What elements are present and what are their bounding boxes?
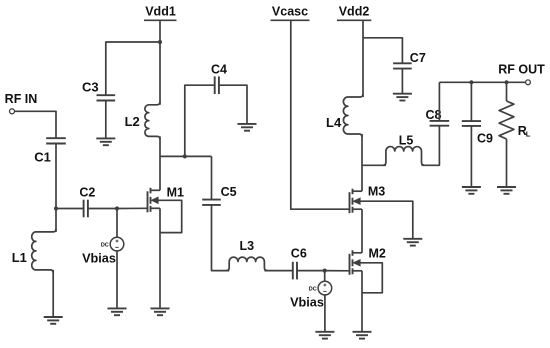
node M1 gate bias (117,208.5)	[115, 206, 119, 210]
wire bias node to Vbias1	[116, 209, 118, 238]
source Vbias2 DC symbol	[318, 281, 332, 295]
wire node row y=156.4	[160, 155, 212, 157]
wire RL top lead	[506, 82, 508, 101]
svg-text:L1: L1	[12, 250, 27, 265]
wire Vcasc to M3 gate	[291, 20, 350, 209]
wire C8 up to output rail	[438, 82, 440, 121]
wire M3 source to M2 drain	[361, 209, 363, 253]
label C9	[477, 132, 493, 146]
power rail Vdd2 label	[337, 5, 371, 21]
label M2	[369, 247, 386, 261]
svg-text:C3: C3	[82, 79, 99, 94]
capacitor C8	[430, 121, 450, 126]
wire C4 branch up	[185, 85, 215, 156]
wire input node to C2	[56, 208, 84, 210]
label dc small 1	[101, 243, 109, 249]
wire gate lead M2	[325, 270, 350, 272]
svg-text:L4: L4	[326, 115, 342, 130]
power rail Vcasc label	[271, 5, 310, 21]
capacitor C9	[462, 121, 481, 126]
capacitor C5	[202, 200, 221, 205]
node RL branch (506.5,82.3)	[504, 80, 508, 84]
svg-text:Vbias: Vbias	[290, 296, 324, 310]
ground under M1 source	[151, 308, 170, 315]
transistor M1	[148, 188, 161, 213]
wire L3 to C6	[264, 270, 292, 272]
wire M2 body-source loop	[357, 263, 382, 293]
label C6	[291, 247, 307, 261]
wire node to C3 branch	[106, 42, 160, 95]
node M2 gate bias (324.7,270.6)	[323, 269, 327, 273]
label L5	[399, 133, 414, 147]
transistor M3	[350, 189, 363, 214]
ground under Vbias1	[108, 308, 127, 315]
svg-text:M3: M3	[368, 185, 385, 199]
svg-text:L: L	[526, 129, 531, 138]
svg-text:C4: C4	[211, 62, 227, 76]
svg-text:Vcasc: Vcasc	[272, 5, 308, 19]
wire M1 drain	[159, 156, 161, 190]
wire Vbias2 to ground	[324, 295, 326, 332]
label M3	[368, 185, 385, 199]
svg-text:Vdd2: Vdd2	[339, 5, 370, 19]
label C7	[410, 51, 426, 65]
svg-text:DC: DC	[309, 287, 317, 293]
svg-text:C9: C9	[477, 132, 493, 146]
terminal RF IN	[10, 109, 15, 114]
label L3	[240, 239, 255, 253]
node at C4 branch (184.8,156.4)	[183, 154, 187, 158]
wire C4 to ground	[219, 85, 247, 124]
svg-text:RF OUT: RF OUT	[498, 63, 545, 77]
source Vbias1 DC symbol	[110, 237, 124, 251]
node C9 branch (471.4,82.3)	[469, 80, 473, 84]
ground under C9	[462, 187, 481, 194]
wire drain junction to L5	[362, 164, 386, 166]
svg-text:C2: C2	[79, 185, 95, 199]
svg-text:L5: L5	[399, 133, 414, 147]
label dc small 2	[309, 287, 317, 293]
wire L4 to M3 drain	[361, 134, 363, 191]
capacitor C2	[84, 200, 88, 218]
label C5	[221, 185, 237, 199]
svg-text:RF IN: RF IN	[5, 92, 38, 106]
wire C3 to ground	[105, 101, 107, 139]
label M1	[167, 186, 184, 200]
svg-text:L3: L3	[240, 239, 255, 253]
label Vbias1	[82, 252, 116, 266]
capacitor C4	[215, 76, 219, 94]
wire gate lead M1	[117, 207, 148, 209]
wire Vbias1 to ground	[116, 251, 118, 309]
wire C5 top lead	[211, 156, 213, 199]
label C8	[426, 108, 442, 122]
node at Vdd1 branch (160,42)	[158, 40, 162, 44]
transistor M2	[350, 250, 363, 274]
wire C9 to ground	[470, 126, 472, 187]
ground under C3	[96, 138, 115, 145]
label L1	[12, 250, 27, 265]
label L4	[326, 115, 342, 130]
ground under M2 source	[353, 332, 372, 339]
ground under C4	[238, 124, 257, 131]
wire branch to C7	[363, 38, 402, 64]
label C4	[211, 62, 227, 76]
wire RL to ground	[506, 139, 508, 187]
inductor L3	[226, 257, 267, 271]
resistor RL	[499, 101, 514, 139]
wire M2 source to ground	[361, 271, 363, 332]
svg-text:Vbias: Vbias	[82, 252, 116, 266]
svg-text:C1: C1	[34, 149, 51, 164]
label Vbias2	[290, 296, 324, 310]
label C1	[34, 149, 51, 164]
power rail Vdd1 label	[144, 5, 177, 21]
ground under Vbias2	[315, 332, 334, 339]
wire L1 to ground	[52, 270, 54, 317]
inductor L1	[32, 209, 56, 273]
label C2	[79, 185, 95, 199]
svg-text:Vdd1: Vdd1	[145, 5, 176, 19]
label RL	[518, 124, 531, 139]
svg-text:M2: M2	[369, 247, 386, 261]
label RF IN	[5, 92, 38, 106]
wire L2 to drain node	[159, 136, 161, 156]
inductor L5	[383, 147, 425, 166]
capacitor C7	[393, 63, 412, 68]
wire Vdd2 down	[362, 20, 364, 97]
capacitor C1	[46, 138, 66, 143]
capacitor C3	[97, 95, 116, 100]
wire C9 top lead	[470, 82, 472, 121]
svg-text:DC: DC	[101, 243, 109, 249]
wire M3 body to ground	[357, 201, 413, 239]
wire bias node2 to Vbias2	[324, 271, 326, 282]
wire output rail	[439, 81, 528, 83]
svg-text:L2: L2	[125, 114, 140, 129]
wire RF IN to C1	[15, 111, 57, 138]
wire C7 to ground	[401, 69, 403, 94]
wire L5 to C8	[422, 126, 440, 166]
wire Vdd1 down to node	[159, 20, 161, 42]
ground at M3 body	[403, 239, 422, 246]
label C3	[82, 79, 99, 94]
ground under L1	[44, 317, 63, 324]
wire C6 to bias node 2	[297, 270, 325, 272]
terminal RF OUT	[526, 80, 531, 85]
wire M1 source to ground	[159, 208, 161, 308]
inductor L4	[343, 94, 363, 137]
ground under RL	[497, 187, 516, 194]
svg-text:C6: C6	[291, 247, 307, 261]
ground under C7	[393, 94, 412, 101]
svg-text:M1: M1	[167, 186, 184, 200]
label RF OUT	[498, 63, 545, 77]
wire C1 to input node	[55, 144, 57, 209]
inductor L2	[145, 42, 160, 139]
svg-text:C5: C5	[221, 185, 237, 199]
wire C2 to bias node	[88, 208, 117, 210]
label L2	[125, 114, 140, 129]
wire M1 body-source loop	[155, 200, 182, 232]
node input (56,208.5)	[54, 206, 58, 210]
capacitor C6	[293, 262, 297, 280]
svg-text:C7: C7	[410, 51, 426, 65]
wire C5 bottom lead	[212, 205, 230, 271]
